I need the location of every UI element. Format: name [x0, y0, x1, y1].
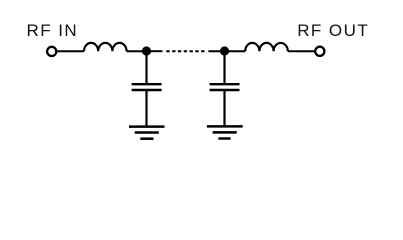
wire from capacitor C2 to ground [223, 91, 225, 126]
capacitor C1 [132, 84, 162, 90]
ground (right) [207, 126, 243, 138]
wire from node A toward dashed section [147, 50, 163, 52]
dashed wire (omitted sections) [166, 50, 204, 52]
wire from node B to inductor L2 [225, 50, 246, 52]
wire from inductor L2 to RF OUT terminal [288, 50, 315, 52]
wire from node A down to capacitor C1 [145, 51, 147, 83]
inductor L1 [84, 43, 127, 51]
node A (junction dot) [142, 46, 151, 55]
svg-text:RF IN: RF IN [27, 21, 79, 40]
wire from inductor L1 to node A [127, 50, 147, 52]
wire from node B down to capacitor C2 [223, 51, 225, 83]
wire from dashed section to node B [208, 50, 224, 52]
ground (left) [129, 127, 165, 139]
terminal RF OUT (open circle) [315, 47, 324, 56]
capacitor C2 [210, 84, 240, 90]
node B (junction dot) [220, 46, 229, 55]
inductor L2 [245, 43, 288, 51]
terminal RF IN (open circle) [47, 47, 56, 56]
wire from capacitor C1 to ground [145, 91, 147, 126]
wire from RF IN terminal to inductor L1 [56, 50, 84, 52]
svg-text:RF OUT: RF OUT [297, 21, 369, 40]
